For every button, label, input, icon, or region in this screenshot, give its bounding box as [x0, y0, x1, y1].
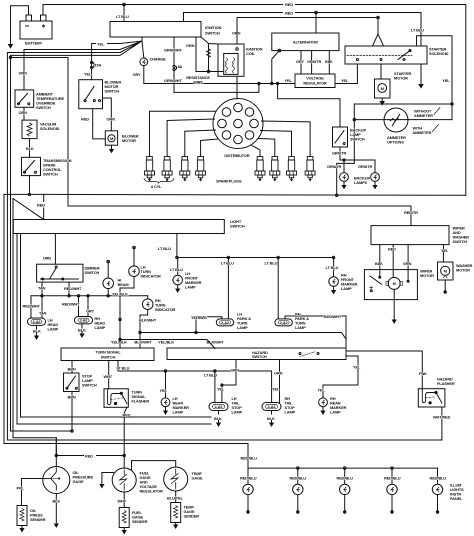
RED wire flasher to gauge bus [123, 407, 131, 468]
svg-text:LAMP: LAMP [48, 327, 59, 332]
instrument panel lamp 2 [293, 484, 303, 514]
svg-text:PNK: PNK [419, 371, 427, 376]
hazard flasher [418, 377, 455, 408]
YEL/BLK rear feed line to hazard switch [119, 338, 215, 348]
svg-text:SWITCH: SWITCH [36, 105, 51, 110]
WHT wire to fuel sender [118, 492, 127, 508]
LH turn indicator [129, 265, 161, 279]
light switch feed RED wire [4, 193, 48, 219]
spark plug wires left [150, 111, 219, 156]
svg-text:SWITCH: SWITCH [350, 137, 365, 142]
svg-text:BLK: BLK [267, 416, 275, 421]
svg-text:YEL: YEL [341, 78, 349, 83]
svg-text:LAMP: LAMP [185, 285, 196, 290]
svg-text:SWITCH: SWITCH [101, 355, 116, 360]
svg-text:M: M [393, 281, 396, 286]
oil pressure gauge [43, 438, 94, 494]
backup lamp switch [333, 127, 367, 147]
starter solenoid [345, 46, 449, 64]
svg-text:BRN: BRN [68, 395, 76, 400]
fuse 8A on GRN/WHT [164, 37, 183, 92]
svg-text:RED: RED [285, 11, 293, 16]
svg-text:REGULATOR: REGULATOR [303, 81, 327, 86]
spark plug 1 [145, 157, 155, 182]
wiper switch output wires [375, 245, 449, 282]
RED/BLU illumination bus [240, 456, 446, 485]
RED/WHT headlamp bus [23, 295, 148, 318]
top power bus H1 (RED, battery feed) [43, 1, 466, 195]
svg-text:SWITCH: SWITCH [85, 270, 100, 275]
svg-text:GAGE: GAGE [73, 479, 85, 484]
instrument panel lamp 4 [387, 484, 397, 514]
wiper and washer switch [371, 226, 469, 245]
svg-text:TAN: TAN [39, 311, 47, 316]
spark plug 4 [196, 157, 206, 182]
blower motor switch [79, 80, 122, 109]
svg-text:GRN/TR: GRN/TR [332, 151, 347, 156]
svg-text:SWITCH: SWITCH [230, 224, 245, 229]
svg-text:YEL: YEL [442, 78, 450, 83]
svg-text:SENDER: SENDER [30, 517, 46, 522]
svg-text:DISTRIBUTOR: DISTRIBUTOR [224, 153, 250, 158]
hi-beam indicator [103, 260, 129, 297]
ORN wire ambient to vacuum solenoid [19, 107, 28, 120]
svg-text:BLK: BLK [53, 499, 61, 504]
instrument panel lamp 5 [432, 484, 442, 514]
resistance wire R1 [186, 37, 223, 85]
blower motor M1 [105, 131, 139, 154]
svg-text:GRN/WHT: GRN/WHT [164, 78, 182, 83]
svg-text:2-A2: 2-A2 [215, 404, 224, 409]
svg-text:YEL: YEL [318, 388, 326, 393]
YEL/BLK wire LH turn to TS switch [111, 277, 134, 349]
LT BLU parking lamp feed [176, 256, 335, 258]
ORN wire blower switch to blower motor [103, 98, 116, 131]
wiper motor [364, 269, 434, 325]
stop lamp switch [64, 373, 97, 431]
fuel gauge and voltage regulator [99, 468, 163, 494]
svg-text:LAMP: LAMP [285, 410, 296, 415]
solenoid to YEL right wire [417, 36, 453, 120]
top bus H3 (coil feed to solenoid) [237, 16, 384, 46]
LH park and turn lamp [191, 258, 251, 334]
svg-text:LT BLU: LT BLU [158, 246, 171, 251]
spark plug 8 [305, 157, 315, 182]
svg-text:ORN: ORN [43, 256, 52, 261]
svg-text:OPTIONS: OPTIONS [387, 140, 404, 145]
LH front marker lamp [170, 258, 202, 294]
ambient temperature override switch [15, 90, 65, 110]
svg-text:ORN: ORN [19, 110, 28, 115]
LT BLU wire TS to hazard lamps [117, 361, 272, 403]
svg-text:CHARGE: CHARGE [150, 57, 167, 62]
svg-text:RED/BLU: RED/BLU [337, 476, 354, 481]
svg-text:LT BLU: LT BLU [117, 366, 130, 371]
svg-text:RED/BLU: RED/BLU [290, 476, 307, 481]
wire transmission switch down to red node [29, 176, 31, 195]
svg-text:YEL: YEL [160, 388, 168, 393]
svg-text:YEL: YEL [97, 42, 105, 47]
svg-text:RED/WHT: RED/WHT [62, 302, 80, 307]
svg-text:FLASHER: FLASHER [132, 399, 150, 404]
svg-text:SENDER: SENDER [184, 514, 200, 519]
light switch [13, 219, 245, 234]
svg-text:BLK/WHT: BLK/WHT [135, 340, 153, 345]
RED wire blower switch to blower motor [81, 109, 105, 139]
left bus verticals [4, 194, 442, 468]
wire D to light switch long vertical [9, 56, 68, 206]
spark plug wires right [252, 121, 310, 157]
svg-text:YEL: YEL [441, 248, 449, 253]
svg-text:LT BLU: LT BLU [116, 14, 129, 19]
svg-text:BLK: BLK [26, 146, 34, 151]
svg-text:LAMP: LAMP [95, 325, 106, 330]
svg-text:2-A2: 2-A2 [33, 319, 42, 324]
svg-text:RED/BLU: RED/BLU [241, 456, 258, 461]
svg-text:LT BLU: LT BLU [170, 267, 183, 272]
top bus H2 (RED, ignition to LT BLU solenoid wire) [184, 10, 425, 47]
alternator G1 [271, 13, 339, 85]
svg-text:INDICATOR: INDICATOR [155, 307, 175, 312]
RH front marker lamp [326, 258, 358, 295]
temp gauge sender [171, 503, 200, 530]
svg-text:MOTOR: MOTOR [420, 273, 434, 278]
ORN wire ignition to resistance wire [186, 37, 209, 72]
svg-text:AMMETER: AMMETER [413, 130, 432, 135]
oil press sender [17, 506, 46, 533]
BLK/WHT rear feed line to hazard switch [139, 331, 346, 344]
svg-text:LAMP: LAMP [173, 410, 184, 415]
GRN/TR wires to backup lamps [327, 147, 375, 173]
PPL wire to oil sender [17, 479, 45, 506]
ignition switch output fan wires [7, 37, 142, 440]
svg-text:AMMETER: AMMETER [414, 113, 433, 118]
bottom border wire y195 to right edge [44, 193, 466, 196]
svg-text:YEL: YEL [272, 387, 280, 392]
svg-text:GAGE: GAGE [192, 476, 204, 481]
ammeter options circle [384, 108, 408, 145]
instrument panel lamp 1 [243, 484, 253, 514]
svg-text:M: M [381, 86, 384, 91]
svg-text:2-A2: 2-A2 [280, 320, 289, 325]
spark plug 7 [287, 157, 297, 182]
backup lamp RH [354, 173, 379, 190]
ignition coil T1 [209, 31, 263, 77]
svg-text:ORN: ORN [107, 117, 116, 122]
svg-text:BRN: BRN [68, 367, 76, 372]
svg-text:YEL: YEL [285, 78, 293, 83]
svg-text:LAMP: LAMP [232, 410, 243, 415]
svg-text:FLASHER: FLASHER [437, 381, 455, 386]
BLK oil gauge ground [53, 494, 61, 529]
YEL wire regulator to solenoid [335, 64, 357, 84]
svg-text:BLU/WHT: BLU/WHT [324, 314, 342, 319]
svg-text:PANEL: PANEL [450, 496, 463, 501]
svg-text:LT BLU: LT BLU [265, 261, 278, 266]
LH rear marker lamp [160, 371, 190, 415]
without-ammeter bypass [336, 103, 454, 197]
RH turn indicator [142, 296, 175, 312]
svg-text:WHT: WHT [118, 499, 127, 504]
svg-text:BLK/WHT: BLK/WHT [139, 318, 157, 323]
BRN wire TS to stop lamp switch [68, 361, 76, 374]
fuel gauge sender [119, 508, 148, 535]
svg-text:BLK: BLK [375, 261, 383, 266]
ORN wire hazard to RH tail lamp [272, 360, 283, 403]
turn signal flasher [104, 389, 149, 408]
GRN/WHT run to regulator junction [174, 82, 260, 92]
washer motor [438, 262, 473, 294]
svg-text:YEL/BLK: YEL/BLK [112, 292, 128, 297]
starter motor M2 [375, 64, 412, 106]
spark plug 2 [162, 157, 172, 182]
svg-text:ALTERNATOR: ALTERNATOR [293, 40, 318, 45]
svg-text:ORN: ORN [232, 31, 241, 36]
svg-text:SWITCH: SWITCH [105, 89, 120, 94]
light switch output drops [17, 234, 177, 425]
svg-text:SWITCH: SWITCH [453, 239, 468, 244]
svg-text:15A: 15A [95, 63, 102, 68]
svg-text:ORN: ORN [274, 371, 283, 376]
svg-text:RED/BLU: RED/BLU [384, 476, 401, 481]
svg-text:RED: RED [37, 203, 45, 208]
ORN coil wire down to distributor [236, 18, 238, 100]
svg-text:WIRE: WIRE [193, 80, 203, 85]
RH park and turn lamp [265, 258, 347, 349]
svg-text:WHT/RED: WHT/RED [433, 415, 451, 420]
svg-text:YEL/BLK: YEL/BLK [158, 340, 174, 345]
svg-text:SWITCH: SWITCH [43, 171, 58, 176]
svg-text:BLK: BLK [214, 416, 222, 421]
RED/WHT wire dimmer output [64, 282, 82, 297]
svg-text:BEAM: BEAM [118, 282, 129, 287]
YEL wire hazard to RH rear marker [318, 356, 361, 398]
WHT/RED wire hazard flasher return [433, 407, 451, 440]
svg-text:YEL: YEL [217, 387, 225, 392]
svg-text:LT BLU: LT BLU [411, 28, 424, 33]
svg-text:SPARKPLUGS: SPARKPLUGS [216, 179, 242, 184]
svg-text:YEL/BLK: YEL/BLK [191, 315, 207, 320]
svg-text:RED: RED [388, 247, 396, 252]
svg-text:IGNITION: IGNITION [205, 25, 222, 30]
svg-text:BLK: BLK [325, 59, 333, 64]
svg-text:RED: RED [123, 413, 131, 418]
turn signal switch [61, 348, 154, 361]
svg-text:SOLENOID: SOLENOID [429, 51, 449, 56]
svg-text:MOTOR: MOTOR [456, 268, 470, 273]
svg-text:ORN: ORN [231, 368, 240, 373]
svg-text:GRN: GRN [403, 261, 412, 266]
svg-text:GRN/TR: GRN/TR [327, 164, 342, 169]
LH head lamp [28, 318, 59, 341]
TAN wire dimmer to headlamp [38, 282, 47, 318]
LT BLU wire through solenoid to ground [418, 64, 424, 89]
fuse 15A [84, 61, 102, 76]
svg-text:LAMP: LAMP [237, 325, 248, 330]
RH tail stop lamp [262, 396, 296, 427]
svg-text:TAN: TAN [38, 286, 46, 291]
svg-text:ORN: ORN [186, 43, 195, 48]
svg-text:LT BLU: LT BLU [326, 265, 339, 270]
svg-text:LAMPS: LAMPS [354, 180, 368, 185]
voltage regulator VR1 [285, 74, 336, 88]
vacuum solenoid [22, 120, 60, 139]
svg-text:LAMP: LAMP [330, 410, 341, 415]
svg-text:RED/TR: RED/TR [404, 210, 418, 215]
svg-text:2-A2: 2-A2 [268, 404, 277, 409]
battery ground wire + ground arrow [8, 6, 29, 49]
svg-text:GRN/TR: GRN/TR [358, 164, 373, 169]
svg-text:SWITCH: SWITCH [205, 31, 220, 36]
instrument panel lamp 3 [340, 484, 350, 514]
svg-text:GRN/WHT: GRN/WHT [164, 48, 182, 53]
svg-text:RED/WHT: RED/WHT [64, 286, 82, 291]
svg-text:RED/BLU: RED/BLU [430, 476, 447, 481]
PNK wire hazard to hazard flasher [346, 351, 427, 389]
temp gauge [164, 467, 203, 491]
svg-text:LT BLU: LT BLU [221, 261, 234, 266]
svg-text:SENDER: SENDER [132, 519, 148, 524]
svg-text:COIL: COIL [246, 51, 256, 56]
svg-text:8 CYL: 8 CYL [151, 184, 162, 189]
svg-text:GRN/TR: GRN/TR [307, 59, 322, 64]
BLK/WHT wire RH turn to TS switch [135, 310, 157, 349]
charge indicator lamp [140, 41, 166, 66]
svg-text:M: M [444, 269, 447, 274]
spark plug 6 [270, 157, 280, 182]
GRY wire charge lamp to regulator line [133, 66, 295, 84]
svg-text:GRY: GRY [133, 72, 141, 77]
svg-text:RED: RED [85, 454, 93, 459]
svg-text:2-A2: 2-A2 [80, 318, 89, 323]
RH rear marker lamp [319, 396, 347, 415]
alternator output wires GRY GRN/TR BLK [296, 51, 333, 74]
8CYL brace [144, 179, 174, 190]
battery [20, 15, 52, 46]
WHT wire TS to flasher [104, 361, 113, 389]
svg-text:SWITCH: SWITCH [82, 383, 97, 388]
spark plug 5 [255, 157, 265, 182]
svg-text:8A: 8A [178, 64, 183, 69]
LH tail stop lamp [209, 396, 243, 427]
backup lamp LH [340, 173, 349, 190]
dimmer switch [37, 264, 100, 282]
svg-text:REGULATOR: REGULATOR [140, 489, 164, 494]
svg-text:SWITCH: SWITCH [252, 354, 267, 359]
wire to backup lamp switch [276, 82, 340, 127]
BLU/YEL wire to temp sender [167, 491, 184, 503]
svg-text:RED/BLU: RED/BLU [240, 476, 257, 481]
svg-text:MOTOR: MOTOR [394, 76, 408, 81]
svg-text:INDICATOR: INDICATOR [141, 274, 161, 279]
svg-text:YEL: YEL [353, 365, 361, 370]
distributor [213, 99, 263, 158]
svg-text:GRY: GRY [86, 309, 94, 314]
svg-text:BATTERY: BATTERY [25, 41, 43, 46]
svg-text:LAMP: LAMP [341, 286, 352, 291]
svg-text:SOLENOID: SOLENOID [40, 126, 60, 131]
svg-text:BLU/YEL: BLU/YEL [167, 496, 184, 501]
svg-text:PPL: PPL [17, 486, 25, 491]
svg-text:2-A2: 2-A2 [221, 320, 230, 325]
transmission spark control switch [22, 157, 72, 176]
svg-text:MOTOR: MOTOR [122, 138, 136, 143]
spark plug 3 [180, 157, 190, 182]
svg-text:GRY: GRY [296, 59, 304, 64]
BLK wire vacuum to transmission switch [26, 139, 34, 158]
svg-text:LAMP: LAMP [295, 325, 306, 330]
svg-text:YEL: YEL [84, 72, 92, 77]
ORN wire hazard to LH tail lamp [217, 360, 239, 403]
RED/TR wire to wiper switch [68, 206, 418, 226]
svg-text:RED: RED [81, 117, 89, 122]
hazard switch [167, 348, 346, 360]
svg-text:RED: RED [285, 2, 293, 7]
gauge RED bus [55, 453, 176, 470]
RH head lamp [75, 316, 106, 338]
ignition switch IGN1 [110, 5, 222, 38]
svg-text:RED/WHT: RED/WHT [23, 304, 41, 309]
svg-text:M: M [110, 136, 113, 141]
svg-text:WHT: WHT [104, 374, 113, 379]
svg-text:ORN: ORN [19, 71, 28, 76]
